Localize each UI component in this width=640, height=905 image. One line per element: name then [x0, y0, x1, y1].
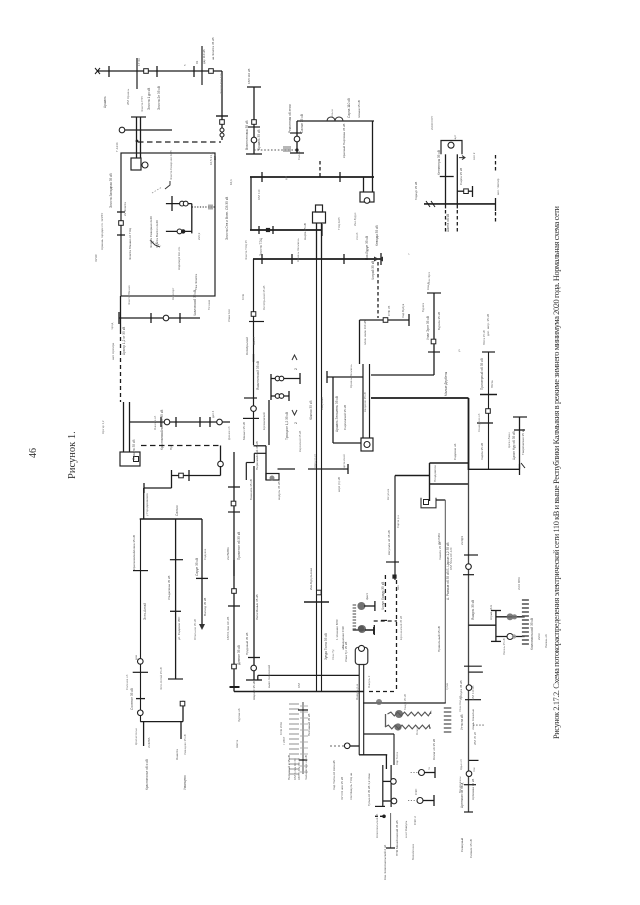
svg-text:Утта на кВ: Утта на кВ — [460, 714, 464, 730]
svg-text:2х Элиста: 2х Элиста — [123, 202, 127, 216]
svg-text:Чкаловский 35 кВ: Чкаловский 35 кВ — [193, 290, 197, 316]
svg-text:Кегульта: Кегульта — [386, 488, 390, 500]
svg-text:Шатта об кВ: Шатта об кВ — [446, 214, 450, 232]
svg-text:а юг Яшкуль: а юг Яшкуль — [404, 820, 408, 838]
svg-text:ант. Арзгира: ант. Арзгира — [111, 343, 115, 360]
svg-text:на Элиста 35 кВ: на Элиста 35 кВ — [211, 38, 215, 60]
svg-text:Троицкое 1,2 35 кВ: Троицкое 1,2 35 кВ — [285, 412, 289, 440]
svg-text:1ВЛ: 1ВЛ — [297, 683, 301, 688]
svg-text:Гашунская СЭС: Гашунская СЭС — [341, 625, 345, 648]
svg-text:Сарпа 110 кВ: Сарпа 110 кВ — [347, 98, 351, 118]
svg-text:Лагань об: Лагань об — [544, 634, 548, 648]
svg-text:сол 2: сол 2 — [472, 152, 476, 160]
svg-text:Элиста Западная 35 кВ: Элиста Западная 35 кВ — [109, 173, 113, 208]
svg-text:2x25МВА: 2x25МВА — [226, 547, 230, 560]
svg-text:СЭС 2: СЭС 2 — [413, 816, 417, 825]
svg-text:1Т 63: 1Т 63 — [137, 58, 141, 66]
svg-text:Чапаевское об кВ: Чапаевское об кВ — [304, 755, 308, 780]
svg-text:Кевюды 35 кВ: Кевюды 35 кВ — [375, 225, 379, 246]
svg-text:зап: зап — [396, 585, 400, 590]
svg-text:1СШ: 1СШ — [241, 293, 245, 300]
svg-text:доп. нагр. 35 кВ: доп. нагр. 35 кВ — [486, 314, 490, 336]
svg-text:Кировский 35 кВ: Кировский 35 кВ — [298, 431, 302, 452]
svg-text:Хар Толга: Хар Толга — [395, 752, 399, 765]
svg-text:Ергенинский 35 кВ: Ергенинский 35 кВ — [399, 616, 403, 640]
svg-text:Шарнут 35 кВ: Шарнут 35 кВ — [252, 681, 256, 700]
svg-text:Юста 35 кВ: Юста 35 кВ — [482, 330, 486, 345]
svg-text:Красномихайловское 35 кВ: Красномихайловское 35 кВ — [160, 410, 164, 450]
svg-text:1ВЛ 110 кВ: 1ВЛ 110 кВ — [471, 686, 475, 700]
svg-text:тяж. Комсомольский 2 об: тяж. Комсомольский 2 об — [383, 845, 387, 880]
svg-text:ЗУЭС: ЗУЭС — [94, 253, 98, 262]
svg-text:Элиста Сев и Воен. СВ 35 кВ: Элиста Сев и Воен. СВ 35 кВ — [225, 197, 229, 240]
svg-text:2x63: 2x63 — [537, 633, 541, 640]
svg-text:Сарпинский 35 кВ: Сарпинский 35 кВ — [343, 405, 347, 430]
svg-text:Элиста 2е 35 кВ: Элиста 2е 35 кВ — [157, 86, 161, 110]
svg-text:Яшалта об: Яшалта об — [153, 415, 157, 430]
svg-text:Бурата: Бурата — [421, 303, 425, 312]
svg-text:ЗУ ОЭ нов 35 кВ: ЗУ ОЭ нов 35 кВ — [340, 777, 344, 800]
svg-text:Элиста Южная: Элиста Южная — [127, 285, 131, 305]
svg-text:2: 2 — [294, 368, 298, 370]
svg-text:Краснополье: Краснополье — [134, 728, 138, 745]
svg-text:Октябрьский 35 кВ: Октябрьский 35 кВ — [262, 286, 266, 310]
svg-text:Нарта 35 кВ: Нарта 35 кВ — [303, 223, 307, 240]
svg-text:46: 46 — [28, 448, 39, 458]
svg-text:Элиста ГПП: Элиста ГПП — [140, 96, 144, 112]
svg-text:Хошеутово об: Хошеутово об — [477, 413, 481, 432]
svg-text:Рисунок 2.17.2. Схема потокора: Рисунок 2.17.2. Схема потокораспределени… — [552, 205, 561, 739]
svg-text:2: 2 — [294, 422, 298, 424]
svg-text:Тяговая: Тяговая — [207, 299, 211, 310]
svg-text:модуль 35 кВ: модуль 35 кВ — [277, 482, 281, 500]
svg-text:Олинг об 35 кВ: Олинг об 35 кВ — [432, 739, 436, 760]
svg-text:Улан Хол об: Улан Хол об — [458, 696, 462, 712]
svg-text:Кануково: Кануково — [320, 397, 324, 410]
svg-text:Башанта 35 кВ: Башанта 35 кВ — [249, 479, 253, 500]
svg-text:Салын 35 кВ: Салын 35 кВ — [300, 114, 304, 133]
svg-text:Малые Дербеты: Малые Дербеты — [444, 371, 448, 396]
svg-text:2х4МВА: 2х4МВА — [147, 737, 151, 748]
svg-text:Агрыз об К: Агрыз об К — [489, 605, 493, 620]
svg-text:Цаган Аман: Цаган Аман — [507, 432, 511, 448]
svg-text:Зурган об: Зурган об — [237, 708, 241, 722]
svg-text:столб: столб — [355, 232, 359, 240]
svg-text:Привольный 35 кВ: Привольный 35 кВ — [437, 626, 441, 652]
svg-text:Олинг: Олинг — [415, 727, 419, 735]
svg-text:Элиста ТЭЦ: Элиста ТЭЦ — [259, 237, 263, 256]
svg-text:Арзгир 1,2: Арзгир 1,2 — [101, 420, 105, 434]
svg-text:2x6,3: 2x6,3 — [197, 232, 201, 240]
svg-text:Яшалта: Яшалта — [175, 749, 179, 760]
svg-text:Ики-Бурульская: Ики-Бурульская — [309, 568, 313, 590]
svg-text:Сияние 35 кВ: Сияние 35 кВ — [469, 839, 473, 858]
svg-text:АВЛ 0,4км АС-35: АВЛ 0,4км АС-35 — [297, 758, 301, 780]
svg-text:Песчаный 35 кВ: Песчаный 35 кВ — [307, 714, 311, 736]
svg-text:Восход 35 кВ: Восход 35 кВ — [203, 598, 207, 616]
svg-text:Сальск: Сальск — [175, 505, 179, 516]
svg-text:Элиста Сев 110: Элиста Сев 110 — [219, 73, 223, 94]
svg-text:Сарпа р-н: Сарпа р-н — [396, 515, 400, 528]
svg-text:Улан Хол: Улан Хол — [227, 309, 231, 322]
svg-text:Аэропорт тяг. сл.: Аэропорт тяг. сл. — [177, 246, 181, 270]
svg-text:Прудовый 35 кВ: Прудовый 35 кВ — [245, 633, 249, 655]
svg-text:Салын: Салын — [297, 151, 301, 160]
svg-text:Шатта: Шатта — [235, 739, 239, 748]
svg-text:2х63 МВА: 2х63 МВА — [517, 577, 521, 590]
svg-text:ба: ба — [427, 766, 431, 770]
svg-text:Первомайский 35 кВ: Первомайский 35 кВ — [255, 441, 259, 470]
svg-text:Уманцево 35 кВ: Уманцево 35 кВ — [183, 734, 187, 755]
svg-text:выкл. Кировский: выкл. Кировский — [267, 665, 271, 688]
svg-text:Элиста 1 до кВ: Элиста 1 до кВ — [147, 88, 151, 110]
svg-text:Гульн об 35 кВ 1,2 этаж: Гульн об 35 кВ 1,2 этаж — [367, 773, 371, 806]
svg-text:1СШ 2СШ: 1СШ 2СШ — [279, 722, 283, 735]
svg-text:эти Яшкуль ТЭЦ на: эти Яшкуль ТЭЦ на — [349, 772, 353, 800]
svg-text:Краснополье об и кВ: Краснополье об и кВ — [145, 759, 149, 790]
svg-text:Юста: Юста — [490, 380, 494, 388]
svg-text:повыш: повыш — [330, 108, 334, 118]
svg-text:у Городовиковск: у Городовиковск — [145, 493, 149, 516]
svg-text:Сарпа 35 кВ: Сарпа 35 кВ — [459, 168, 463, 185]
svg-text:Ики-Бурул: Ики-Бурул — [353, 212, 357, 226]
svg-text:Песчаный 2 35 кВ: Песчаный 2 35 кВ — [287, 755, 291, 780]
svg-text:ПТФ Михайловский 35 кВ: ПТФ Михайловский 35 кВ — [395, 821, 399, 856]
svg-text:2ВЛ 35 кВ: 2ВЛ 35 кВ — [473, 732, 477, 745]
svg-text:ТЭЦ 2х25: ТЭЦ 2х25 — [337, 217, 341, 230]
svg-text:Яшкуль 2: Яшкуль 2 — [367, 675, 371, 688]
svg-text:Лесн Маныч 35 кВ: Лесн Маныч 35 кВ — [255, 594, 259, 620]
svg-text:элев. книж 110 кВ: элев. книж 110 кВ — [363, 320, 367, 345]
svg-text:10,1: 10,1 — [229, 179, 233, 185]
svg-text:Артезиан 35 кВ: Артезиан 35 кВ — [471, 779, 475, 800]
svg-text:Комсомольский 35 кВ: Комсомольский 35 кВ — [530, 618, 534, 650]
svg-text:Хар Толга об этом кВ: Хар Толга об этом кВ — [332, 760, 336, 790]
svg-text:дет 4: дет 4 — [211, 410, 215, 418]
svg-text:ул. Садовое 35С: ул. Садовое 35С — [177, 616, 181, 640]
svg-text:Элиста Южная об ТЭЦ: Элиста Южная об ТЭЦ — [128, 227, 132, 260]
svg-text:Соленое об: Соленое об — [125, 674, 129, 690]
svg-text:Южная 35 кВ: Южная 35 кВ — [309, 401, 313, 420]
svg-text:Аршань Зельмень 35 кВ: Аршань Зельмень 35 кВ — [335, 396, 339, 432]
svg-text:Аэропорт: Аэропорт — [171, 287, 175, 300]
svg-text:дов: дов — [134, 655, 138, 660]
svg-text:Красномихайловка 35 кВ: Красномихайловка 35 кВ — [132, 535, 136, 570]
svg-text:Бурата 35 кВ: Бурата 35 кВ — [437, 312, 441, 330]
svg-text:т 2897: т 2897 — [282, 736, 286, 745]
svg-text:СЭС: СЭС — [414, 788, 418, 795]
svg-text:10,5 21,3: 10,5 21,3 — [209, 152, 213, 165]
svg-text:повыш 35 кВ: повыш 35 кВ — [357, 100, 361, 118]
svg-text:Элиста Восточ 2x40: Элиста Восточ 2x40 — [155, 220, 159, 248]
svg-text:очень тяжелые: очень тяжелые — [471, 709, 475, 730]
svg-text:Лагань 35 кВ: Лагань 35 кВ — [502, 638, 506, 655]
svg-text:Зунда Толга 35 кВ: Зунда Толга 35 кВ — [324, 633, 328, 660]
svg-text:Кануково 35 кВ: Кануково 35 кВ — [363, 392, 367, 412]
svg-text:Кетченеры 35 кВ: Кетченеры 35 кВ — [437, 150, 441, 175]
svg-text:Комсомольский об: Комсомольский об — [375, 813, 379, 838]
svg-text:1ВЛ 110 кВ: 1ВЛ 110 кВ — [247, 69, 251, 84]
svg-text:Садовое об: Садовое об — [453, 443, 457, 460]
svg-text:Адык об: Адык об — [459, 759, 463, 770]
svg-text:дву 110 кВ: дву 110 кВ — [202, 49, 206, 64]
svg-text:СТФ 35: СТФ 35 — [387, 305, 391, 316]
svg-text:Хар Булук: Хар Булук — [401, 303, 405, 318]
svg-text:Октябрьский: Октябрьский — [245, 337, 249, 355]
svg-text:Дивное 35 кВ: Дивное 35 кВ — [237, 645, 241, 665]
svg-text:Садовое: Садовое — [203, 548, 207, 560]
svg-text:1ВЛ 56км АС-120: 1ВЛ 56км АС-120 — [449, 547, 453, 570]
svg-text:2х630 ОРУ: 2х630 ОРУ — [430, 116, 434, 130]
svg-text:Гашун 35 кВ: Гашун 35 кВ — [403, 694, 407, 710]
svg-text:Обильное 35 кВ: Обильное 35 кВ — [193, 619, 197, 640]
svg-text:тяж: тяж — [472, 767, 476, 772]
svg-text:факт: факт — [365, 593, 369, 600]
svg-text:Ремонтная об этом: Ремонтная об этом — [288, 104, 292, 133]
svg-text:Маныч 35 кВ: Маныч 35 кВ — [242, 422, 246, 440]
svg-text:Уманцево: Уманцево — [183, 775, 187, 790]
svg-text:Приютное об 35 кВ: Приютное об 35 кВ — [237, 532, 241, 560]
svg-text:Харба 35 кВ: Харба 35 кВ — [480, 443, 484, 460]
svg-text:Эсто-Алтай: Эсто-Алтай — [143, 603, 147, 620]
svg-text:01: 01 — [195, 60, 199, 64]
svg-text:Приозерный об 35 кВ: Приозерный об 35 кВ — [480, 358, 484, 390]
svg-text:Соленое 35 кВ: Соленое 35 кВ — [130, 688, 134, 710]
svg-text:Чограй 35 кВ: Чограй 35 кВ — [371, 261, 375, 280]
svg-text:Манджикины: Манджикины — [458, 776, 462, 793]
svg-text:Ульдючины 35 кВ: Ульдючины 35 кВ — [167, 576, 171, 600]
svg-text:Пр: Пр — [169, 446, 173, 450]
svg-text:Улан Туг: Улан Туг — [331, 649, 335, 660]
svg-text:Северный: Северный — [460, 837, 464, 852]
svg-text:Ики-Бурул 35 кВ: Ики-Бурул 35 кВ — [365, 236, 369, 260]
svg-text:вол. Чилгир: вол. Чилгир — [496, 178, 500, 195]
svg-text:Аршань: Аршань — [103, 96, 107, 108]
svg-text:Аршань городок сл. 12УЗУ: Аршань городок сл. 12УЗУ — [100, 213, 104, 250]
svg-text:Аршань Зельмень: Аршань Зельмень — [349, 364, 353, 388]
svg-text:Улан Эрге 35 кВ: Улан Эрге 35 кВ — [426, 316, 430, 340]
svg-text:Элиста Северная 2х35: Элиста Северная 2х35 — [169, 150, 173, 180]
svg-text:Шарнут об: Шарнут об — [313, 454, 317, 468]
svg-text:д 2: д 2 — [284, 176, 288, 180]
svg-text:Шин 2: Шин 2 — [252, 337, 256, 345]
svg-text:1ВЛ 0,4км АС-95: 1ВЛ 0,4км АС-95 — [226, 616, 230, 640]
svg-text:1ВЛ 110: 1ВЛ 110 — [257, 189, 261, 200]
svg-text:Чолун Хамур 35 кВ: Чолун Хамур 35 кВ — [381, 582, 385, 610]
svg-text:Сарпинский: Сарпинский — [342, 454, 346, 470]
svg-text:Плодовитое: Плодовитое — [433, 465, 437, 482]
svg-text:Яшалта 35 кВ: Яшалта 35 кВ — [132, 439, 136, 460]
svg-text:Улан Эрге: Улан Эрге — [427, 271, 431, 285]
svg-text:Элиста ТЭЦ 35: Элиста ТЭЦ 35 — [244, 240, 248, 260]
svg-text:Т-1244: Т-1244 — [115, 142, 119, 152]
svg-text:Сарул 35 кВ: Сарул 35 кВ — [195, 558, 199, 576]
svg-text:Элиста Северная 2x40: Элиста Северная 2x40 — [149, 216, 153, 248]
svg-text:Яшкуль р-н: Яшкуль р-н — [355, 684, 359, 700]
svg-text:щит: щит — [453, 134, 457, 140]
svg-text:Аршань 35 кВ: Аршань 35 кВ — [257, 130, 261, 151]
svg-text:Михайловка: Михайловка — [411, 844, 415, 860]
svg-text:Дивное об: Дивное об — [227, 426, 231, 440]
svg-text:Годжур 35 кВ: Годжур 35 кВ — [414, 182, 418, 200]
svg-text:Ергенинский: Ергенинский — [262, 412, 266, 430]
svg-text:Яшалтинский 35 кВ: Яшалтинский 35 кВ — [256, 361, 260, 390]
svg-text:Яшкуль 35 кВ: Яшкуль 35 кВ — [471, 600, 475, 620]
svg-text:Цаган Нур об 35 кВ: Цаган Нур об 35 кВ — [512, 431, 516, 460]
svg-text:Тяж Элиста: Тяж Элиста — [194, 274, 198, 290]
svg-text:Рисунок 1.: Рисунок 1. — [67, 431, 78, 479]
svg-text:2хЗДЭ: 2хЗДЭ — [460, 535, 464, 545]
svg-text:2ВЛ Аршань: 2ВЛ Аршань — [126, 88, 130, 105]
svg-text:Кегульта об 35 кВ: Кегульта об 35 кВ — [387, 530, 391, 555]
svg-text:Эсто-Алтай 35 кВ: Эсто-Алтай 35 кВ — [159, 667, 163, 690]
svg-text:кирп (1) кВ: кирп (1) кВ — [337, 477, 341, 492]
svg-text:Аршань Зельмень: Аршань Зельмень — [296, 238, 300, 262]
svg-text:Вознесеновка 35 кВ: Вознесеновка 35 кВ — [245, 120, 249, 150]
svg-text:1 этажная ВЛС: 1 этажная ВЛС — [335, 618, 339, 640]
svg-text:Таврическая 35 кВ: Таврическая 35 кВ — [521, 429, 525, 455]
svg-text:2х16МВА: 2х16МВА — [437, 533, 441, 545]
svg-text:Красный Партизан 35 кВ: Красный Партизан 35 кВ — [342, 124, 346, 158]
svg-text:город: город — [110, 322, 114, 330]
svg-text:тупик: тупик — [445, 682, 449, 690]
svg-text:Арзгир 1,2 от 35 кВ: Арзгир 1,2 от 35 кВ — [122, 327, 126, 355]
